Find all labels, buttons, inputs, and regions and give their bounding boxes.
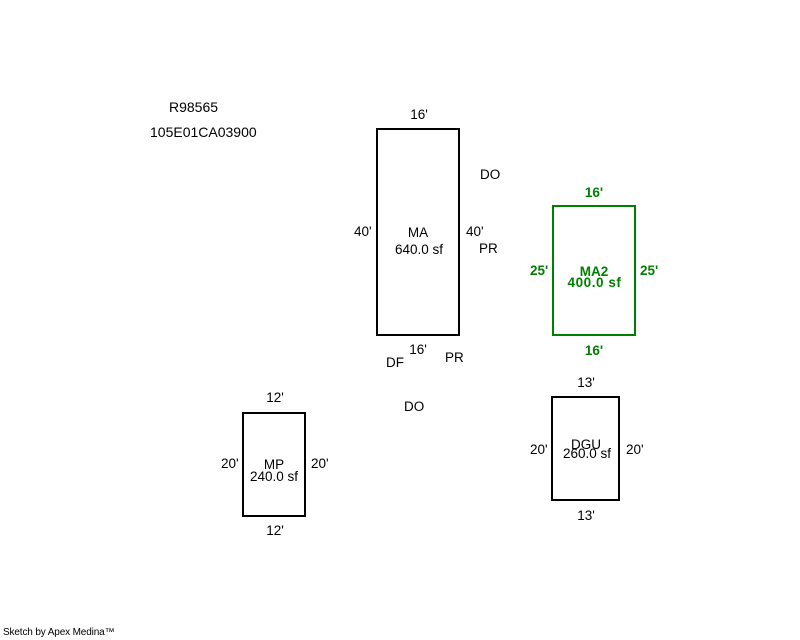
MA2 dimension 25' right [640,264,658,278]
MP dimension 12' top [266,391,284,405]
MA2 dimension 16' top [585,186,603,200]
DGU dimension 20' right [626,443,644,457]
label PR bottom [445,351,464,365]
label DF bottom [386,356,404,370]
parcel id 105E01CA03900 [150,125,257,139]
MA2 dimension 16' bottom [585,344,603,358]
MA dimension 16' top [410,108,428,122]
DGU area label [571,438,601,452]
MA area label [408,226,428,240]
label DO lower [404,400,424,414]
MA2 dimension 25' left [530,264,548,278]
parcel id R98565 [169,100,218,114]
label PR right [479,242,498,256]
DGU dimension 13' bottom [577,509,595,523]
MA2 area label [580,265,609,279]
DGU dimension 20' left [530,443,548,457]
MP dimension 20' left [221,457,239,471]
MA dimension 40' right [466,225,484,239]
label DO upper right [480,168,500,182]
building DGU outline [551,396,620,501]
building MA2 outline (green) [552,205,636,336]
MP dimension 20' right [311,457,329,471]
MP area label [264,458,284,472]
building MA outline [376,128,460,336]
MA dimension 40' left [354,225,372,239]
MA dimension 16' bottom [409,343,427,357]
DGU dimension 13' top [577,376,595,390]
MP dimension 12' bottom [266,524,284,538]
building MP outline [242,412,306,517]
footer: Sketch by Apex Medina [3,628,114,638]
